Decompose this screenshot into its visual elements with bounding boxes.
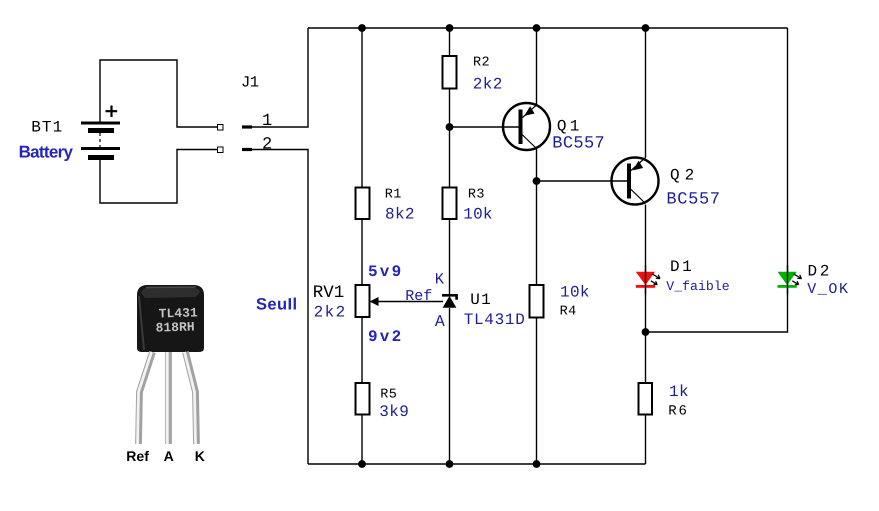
svg-text:10k: 10k xyxy=(560,284,590,302)
svg-text:D2: D2 xyxy=(808,263,832,281)
svg-text:BT1: BT1 xyxy=(31,119,63,137)
svg-text:SeuIl: SeuIl xyxy=(256,295,297,313)
svg-text:Battery: Battery xyxy=(19,143,74,162)
svg-text:U1: U1 xyxy=(470,291,492,309)
svg-text:2: 2 xyxy=(262,136,272,155)
svg-text:A: A xyxy=(164,448,174,464)
svg-text:R4: R4 xyxy=(560,305,577,320)
svg-text:BC557: BC557 xyxy=(552,135,605,154)
svg-text:V_OK: V_OK xyxy=(807,281,849,298)
svg-text:A: A xyxy=(435,312,445,331)
svg-text:J1: J1 xyxy=(241,73,259,91)
svg-text:5v9: 5v9 xyxy=(368,263,403,281)
svg-text:TL431D: TL431D xyxy=(464,311,526,329)
svg-text:R1: R1 xyxy=(385,188,402,203)
svg-text:Q2: Q2 xyxy=(670,166,699,184)
svg-text:R5: R5 xyxy=(380,388,397,403)
svg-text:10k: 10k xyxy=(463,205,492,223)
svg-text:R3: R3 xyxy=(468,188,485,203)
svg-text:V_faible: V_faible xyxy=(666,279,729,294)
svg-text:8k2: 8k2 xyxy=(385,205,415,223)
svg-text:1k: 1k xyxy=(669,383,689,401)
svg-text:2k2: 2k2 xyxy=(314,303,347,321)
svg-text:R2: R2 xyxy=(473,55,490,70)
svg-text:9v2: 9v2 xyxy=(368,328,403,346)
svg-text:R6: R6 xyxy=(668,403,688,419)
svg-text:Q1: Q1 xyxy=(557,118,583,136)
svg-text:RV1: RV1 xyxy=(313,283,345,303)
svg-text:K: K xyxy=(195,448,205,464)
svg-text:BC557: BC557 xyxy=(666,191,720,210)
svg-text:D1: D1 xyxy=(670,258,694,276)
svg-text:1: 1 xyxy=(262,112,272,131)
svg-text:Ref: Ref xyxy=(126,448,149,464)
svg-text:K: K xyxy=(435,271,445,289)
svg-text:2k2: 2k2 xyxy=(473,75,503,93)
svg-text:Ref: Ref xyxy=(405,288,432,305)
svg-text:3k9: 3k9 xyxy=(379,403,409,421)
